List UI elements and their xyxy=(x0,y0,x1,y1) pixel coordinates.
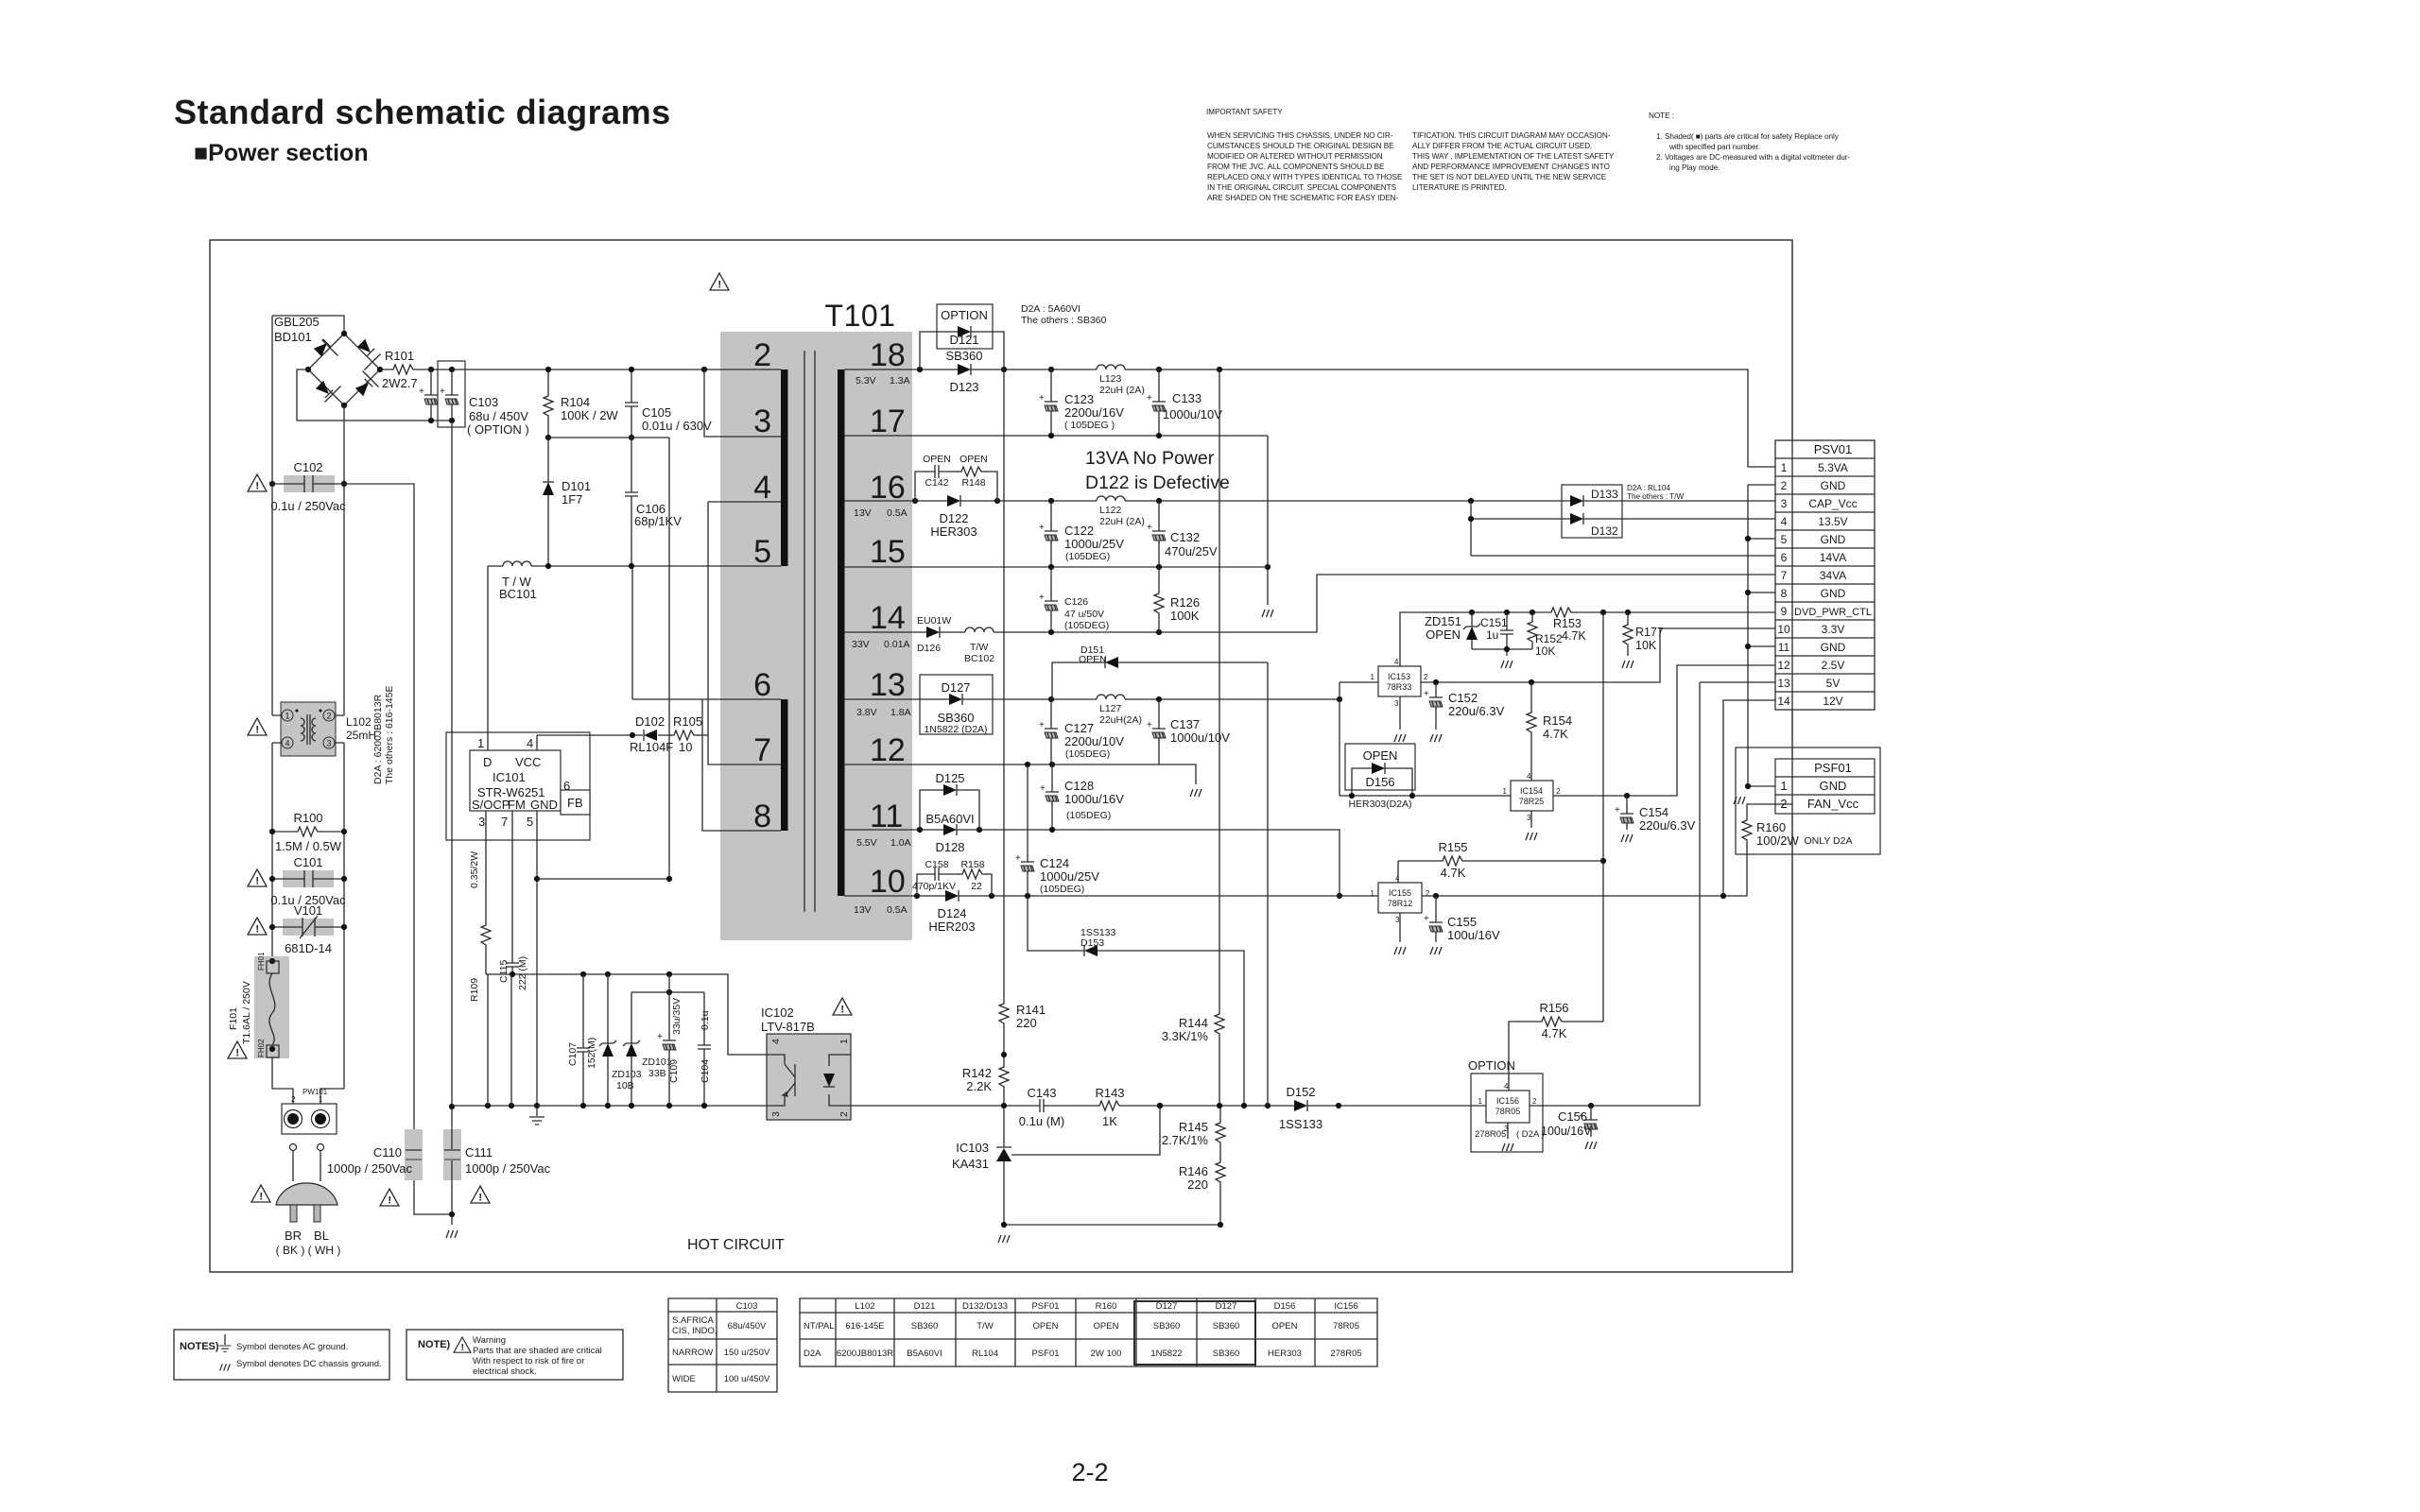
wire 2.5V output xyxy=(1553,665,1775,796)
svg-text:R105: R105 xyxy=(673,714,702,729)
svg-text:D2A : 5A60VI: D2A : 5A60VI xyxy=(1021,303,1080,315)
ground C111 xyxy=(446,1230,458,1238)
warning triangle C102 xyxy=(248,474,267,492)
resistor R153 xyxy=(1547,608,1577,617)
svg-text:3: 3 xyxy=(753,404,771,439)
svg-text:D122 is Defective: D122 is Defective xyxy=(1085,472,1230,493)
svg-text:D132: D132 xyxy=(1591,524,1618,538)
ground IC103 xyxy=(998,1235,1010,1243)
resistor R126 xyxy=(1158,567,1160,632)
svg-text:Warning: Warning xyxy=(473,1335,506,1346)
wire aux filter rail xyxy=(631,991,704,993)
capacitor C152 xyxy=(1435,682,1437,730)
svg-text:100u/16V: 100u/16V xyxy=(1447,928,1500,942)
svg-text:2: 2 xyxy=(1556,787,1561,796)
svg-text:1u: 1u xyxy=(1486,628,1498,642)
warning triangle IC102 xyxy=(833,998,852,1016)
svg-text:ZD151: ZD151 xyxy=(1425,614,1461,628)
svg-text:33B: 33B xyxy=(648,1068,666,1079)
svg-text:10: 10 xyxy=(1777,623,1790,636)
svg-text:C142: C142 xyxy=(925,477,948,489)
warning triangle plug xyxy=(251,1185,270,1203)
transformer L102 xyxy=(281,702,376,756)
svg-text:1: 1 xyxy=(1781,461,1788,474)
svg-text:681D-14: 681D-14 xyxy=(285,941,332,955)
svg-text:L127: L127 xyxy=(1099,703,1122,714)
svg-text:IC102: IC102 xyxy=(761,1005,794,1020)
svg-text:13VA No Power: 13VA No Power xyxy=(1085,448,1215,469)
svg-text:0.5A: 0.5A xyxy=(887,904,907,916)
warning triangle C101 xyxy=(248,869,267,887)
svg-text:R126: R126 xyxy=(1170,595,1200,610)
capacitor C158 branch xyxy=(912,859,992,896)
connector PSV01 xyxy=(1775,440,1875,710)
svg-text:220u/6.3V: 220u/6.3V xyxy=(1639,818,1696,833)
IC101 STR-W6251 xyxy=(446,732,590,840)
svg-text:4: 4 xyxy=(285,739,289,748)
svg-text:T1.6AL / 250V: T1.6AL / 250V xyxy=(241,981,252,1044)
svg-text:B5A60VI: B5A60VI xyxy=(907,1349,942,1359)
ground R177 xyxy=(1622,661,1633,668)
svg-text:GND: GND xyxy=(1821,587,1846,600)
svg-text:V101: V101 xyxy=(294,903,322,918)
svg-text:D156: D156 xyxy=(1365,775,1394,789)
capacitor C102 xyxy=(269,460,347,513)
zener ZD103 xyxy=(607,974,609,1106)
svg-text:PSF01: PSF01 xyxy=(1031,1349,1059,1359)
svg-text:R144: R144 xyxy=(1179,1016,1208,1030)
varistor V101 xyxy=(269,903,347,955)
svg-text:3: 3 xyxy=(770,1111,782,1117)
svg-text:PW101: PW101 xyxy=(302,1088,328,1096)
svg-text:R145: R145 xyxy=(1179,1120,1208,1134)
wire D151 drop xyxy=(1267,662,1269,1106)
svg-text:3: 3 xyxy=(1781,497,1788,510)
svg-text:1: 1 xyxy=(1371,889,1375,898)
diode D124 xyxy=(945,890,959,902)
svg-text:GND: GND xyxy=(1820,779,1847,793)
svg-text:0.1u / 250Vac: 0.1u / 250Vac xyxy=(270,499,346,513)
svg-text:NOTE): NOTE) xyxy=(418,1339,451,1350)
svg-text:470u/25V: 470u/25V xyxy=(1165,544,1218,558)
optocoupler IC102 xyxy=(761,1005,851,1120)
svg-text:C127: C127 xyxy=(1064,721,1094,735)
svg-text:13V: 13V xyxy=(854,904,872,916)
capacitor C101 xyxy=(269,855,347,907)
svg-text:RL104F: RL104F xyxy=(630,740,673,754)
svg-text:68p/1KV: 68p/1KV xyxy=(634,514,682,528)
svg-text:3: 3 xyxy=(1527,814,1531,822)
svg-text:1000u/25V: 1000u/25V xyxy=(1064,537,1124,551)
svg-text:1.5M / 0.5W: 1.5M / 0.5W xyxy=(275,839,342,853)
wire 5.5V rail pin11 xyxy=(844,830,1340,896)
schematic outline border xyxy=(210,240,1792,1272)
svg-text:C137: C137 xyxy=(1170,717,1200,731)
svg-text:6200JB8013R: 6200JB8013R xyxy=(837,1349,893,1359)
svg-text:IC156: IC156 xyxy=(1496,1096,1519,1106)
regulator IC156 option xyxy=(1468,1058,1545,1152)
resistor R154 xyxy=(1530,682,1532,781)
svg-text:1F7: 1F7 xyxy=(562,492,582,507)
svg-text:C110: C110 xyxy=(373,1145,402,1160)
svg-text:R153: R153 xyxy=(1553,617,1582,630)
wire 2.5V input rail xyxy=(1340,795,1511,797)
svg-text:OPTION: OPTION xyxy=(1468,1058,1515,1073)
svg-text:1000u/10V: 1000u/10V xyxy=(1163,407,1222,421)
svg-text:C104: C104 xyxy=(700,1059,711,1083)
svg-text:IC155: IC155 xyxy=(1389,888,1411,898)
svg-text:LITERATURE IS PRINTED.: LITERATURE IS PRINTED. xyxy=(1412,183,1507,192)
svg-text:C152: C152 xyxy=(1448,691,1478,705)
svg-text:C151: C151 xyxy=(1480,616,1508,629)
svg-text:8: 8 xyxy=(1781,587,1788,600)
wire feedback bottom rail xyxy=(851,682,1700,1106)
zener ZD101 xyxy=(631,992,632,1106)
svg-text:16: 16 xyxy=(870,470,906,506)
svg-text:4.7K: 4.7K xyxy=(1542,1026,1567,1040)
wire sense branch vertical xyxy=(1602,612,1604,1022)
svg-text:R160: R160 xyxy=(1096,1301,1117,1312)
svg-text:RL104: RL104 xyxy=(972,1349,998,1359)
svg-text:L123: L123 xyxy=(1099,373,1122,385)
left AC bus xyxy=(271,316,273,961)
diode D128 xyxy=(943,824,957,835)
svg-text:ALLY DIFFER FROM THE ACTUAL: ALLY DIFFER FROM THE ACTUAL CIRCUIT USED… xyxy=(1412,142,1592,150)
svg-text:5: 5 xyxy=(527,815,533,829)
wire AC line to C110 xyxy=(344,484,452,1214)
svg-text:GBL205: GBL205 xyxy=(274,315,320,329)
svg-text:220: 220 xyxy=(1187,1177,1208,1192)
svg-text:BD101: BD101 xyxy=(274,330,312,344)
svg-text:(105DEG): (105DEG) xyxy=(1065,551,1110,562)
capacitor C127 xyxy=(1050,699,1052,765)
svg-text:TIFICATION. THIS CIRCUIT DIAGR: TIFICATION. THIS CIRCUIT DIAGRAM MAY OCC… xyxy=(1412,131,1611,140)
svg-text:4: 4 xyxy=(1504,1082,1509,1091)
svg-text:OPEN: OPEN xyxy=(959,454,988,465)
svg-text:FROM THE JVC. ALL COMPONENT: FROM THE JVC. ALL COMPONENTS SHOULD BE xyxy=(1207,163,1385,171)
wire IC101 pin3 xyxy=(485,811,487,974)
svg-text:R152: R152 xyxy=(1535,632,1563,645)
diode D132 xyxy=(1471,501,1775,556)
svg-text:R155: R155 xyxy=(1438,840,1467,854)
svg-text:R100: R100 xyxy=(293,811,322,825)
svg-text:14: 14 xyxy=(870,600,906,636)
diode D122 xyxy=(947,495,960,507)
svg-text:220: 220 xyxy=(1016,1016,1037,1030)
svg-text:PSV01: PSV01 xyxy=(1814,442,1852,456)
svg-text:L122: L122 xyxy=(1099,505,1122,516)
svg-text:1K: 1K xyxy=(1102,1114,1117,1128)
wire snubber bottom xyxy=(548,438,669,879)
svg-text:R156: R156 xyxy=(1539,1001,1568,1015)
svg-text:CAP_Vcc: CAP_Vcc xyxy=(1808,497,1857,510)
svg-text:L102: L102 xyxy=(346,715,372,729)
svg-text:152(M): 152(M) xyxy=(586,1038,597,1069)
connector PSF01 xyxy=(1736,747,1880,854)
svg-text:0.01u / 630V: 0.01u / 630V xyxy=(642,419,712,433)
svg-text:IMPORTANT SAFETY: IMPORTANT SAFETY xyxy=(1206,108,1283,116)
capacitor C133 xyxy=(1158,369,1160,436)
svg-text:R158: R158 xyxy=(960,859,984,870)
svg-text:47 u/50V: 47 u/50V xyxy=(1064,609,1104,620)
svg-text:C105: C105 xyxy=(642,405,671,420)
capacitor C132 xyxy=(1158,501,1160,567)
svg-text:OPEN: OPEN xyxy=(1426,627,1461,642)
svg-text:The others : 616-145E: The others : 616-145E xyxy=(384,686,395,784)
diode D121 option branch xyxy=(920,304,1004,369)
svg-text:3: 3 xyxy=(478,815,485,829)
svg-text:ZD103: ZD103 xyxy=(612,1069,642,1080)
svg-text:The others : SB360: The others : SB360 xyxy=(1021,315,1107,326)
svg-text:5.3VA: 5.3VA xyxy=(1818,461,1848,474)
svg-text:AND PERFORMANCE IMPROVEMENT CH: AND PERFORMANCE IMPROVEMENT CHANGES INTO xyxy=(1412,163,1610,171)
svg-text:100K / 2W: 100K / 2W xyxy=(561,408,618,422)
wire 5.3V rail pin18 xyxy=(844,369,1775,467)
svg-text:22uH (2A): 22uH (2A) xyxy=(1099,516,1145,527)
svg-text:100u/16V: 100u/16V xyxy=(1541,1125,1592,1138)
svg-text:SB360: SB360 xyxy=(911,1321,939,1332)
svg-text:D124: D124 xyxy=(937,906,966,920)
svg-text:78R05: 78R05 xyxy=(1333,1321,1359,1332)
wire IC101 pin5 gnd xyxy=(536,811,538,1106)
svg-text:D127: D127 xyxy=(1156,1301,1178,1312)
svg-text:SB360: SB360 xyxy=(945,349,982,363)
node B+ junctions xyxy=(428,367,434,372)
svg-text:with specified part number.: with specified part number. xyxy=(1668,143,1760,151)
svg-text:D126: D126 xyxy=(917,643,941,654)
svg-text:GND: GND xyxy=(1821,479,1846,492)
resistor R160 xyxy=(1747,804,1792,816)
svg-text:5.3V: 5.3V xyxy=(856,375,876,387)
wire pin3 feed xyxy=(704,369,781,437)
transformer T101 xyxy=(781,299,895,912)
svg-text:278R05: 278R05 xyxy=(1330,1349,1361,1359)
svg-text:4: 4 xyxy=(753,470,771,506)
svg-text:C158: C158 xyxy=(925,859,948,870)
svg-text:1: 1 xyxy=(1371,673,1375,681)
svg-text:FH02: FH02 xyxy=(257,1039,266,1057)
svg-text:R104: R104 xyxy=(561,395,590,409)
svg-text:S.AFRICA: S.AFRICA xyxy=(672,1315,714,1326)
wire 13V rail pin16 xyxy=(844,500,1775,502)
svg-text:10: 10 xyxy=(679,740,692,754)
svg-text:HER303: HER303 xyxy=(930,524,977,539)
svg-text:13: 13 xyxy=(1777,677,1790,690)
svg-text:CUMSTANCES SHOULD THE ORIGI: CUMSTANCES SHOULD THE ORIGINAL DESIGN BE xyxy=(1207,142,1394,150)
wire primary gnd rail xyxy=(486,974,767,1055)
svg-text:R142: R142 xyxy=(962,1066,992,1080)
svg-text:MODIFIED OR ALTERED WITHOUT: MODIFIED OR ALTERED WITHOUT PERMISSION xyxy=(1207,152,1383,161)
svg-text:SB360: SB360 xyxy=(1213,1321,1240,1332)
zener ZD151 open xyxy=(1471,612,1473,649)
svg-text:(105DEG): (105DEG) xyxy=(1065,748,1110,760)
svg-text:PSF01: PSF01 xyxy=(1814,761,1852,775)
svg-text:3: 3 xyxy=(1395,916,1400,924)
wire C103 down bus xyxy=(451,421,453,1106)
svg-text:34VA: 34VA xyxy=(1820,569,1846,582)
wire IC153 input xyxy=(1340,682,1378,796)
capacitor C106 xyxy=(631,438,632,566)
svg-text:FH01: FH01 xyxy=(257,952,266,971)
svg-text:7: 7 xyxy=(501,815,508,829)
svg-text:L102: L102 xyxy=(855,1301,874,1312)
svg-text:78R12: 78R12 xyxy=(1388,899,1413,908)
svg-text:IC101: IC101 xyxy=(493,770,526,784)
svg-text:With respect to risk of fire o: With respect to risk of fire or xyxy=(473,1356,584,1366)
svg-text:SB360: SB360 xyxy=(1153,1321,1181,1332)
wire IC101 pin1 drain xyxy=(487,566,489,750)
svg-text:S/OCP: S/OCP xyxy=(472,798,510,812)
svg-text:5.5V: 5.5V xyxy=(856,837,877,849)
transformer T101 shaded area xyxy=(720,332,912,940)
svg-text:C111: C111 xyxy=(465,1145,493,1160)
svg-text:Symbol denotes DC chassis grou: Symbol denotes DC chassis ground. xyxy=(236,1359,382,1369)
svg-text:1.3A: 1.3A xyxy=(890,375,910,387)
svg-text:3: 3 xyxy=(1394,699,1399,708)
resistor R148 open xyxy=(957,467,987,476)
svg-text:NT/PAL: NT/PAL xyxy=(804,1321,835,1332)
svg-text:33u/35V: 33u/35V xyxy=(671,998,683,1035)
capacitor C105 xyxy=(631,369,632,438)
svg-text:( 105DEG ): ( 105DEG ) xyxy=(1064,420,1115,431)
svg-text:3: 3 xyxy=(326,739,331,748)
svg-text:1000u/25V: 1000u/25V xyxy=(1040,869,1099,884)
capacitor C143 xyxy=(1033,1099,1050,1112)
svg-text:OPEN: OPEN xyxy=(1363,748,1398,763)
inductor L127 xyxy=(1097,695,1125,699)
notes box symbols xyxy=(174,1330,389,1380)
svg-text:100/2W: 100/2W xyxy=(1756,833,1800,848)
svg-text:D153: D153 xyxy=(1080,937,1104,949)
svg-text:D127: D127 xyxy=(1216,1301,1237,1312)
warning triangle top xyxy=(710,273,729,291)
svg-text:electrical shock.: electrical shock. xyxy=(473,1366,537,1377)
capacitor C142 open branch xyxy=(915,454,997,501)
svg-text:FM: FM xyxy=(508,798,526,812)
svg-text:9: 9 xyxy=(1781,605,1788,618)
diode D156 open xyxy=(1345,744,1415,810)
warning triangle F101 xyxy=(228,1041,247,1059)
wire IC103 gnd rail xyxy=(1004,1224,1220,1226)
svg-text:C123: C123 xyxy=(1064,392,1094,406)
svg-text:1: 1 xyxy=(319,1095,323,1104)
capacitor C122 xyxy=(1050,501,1052,567)
resistor R101 xyxy=(389,365,419,374)
ground zener net xyxy=(1501,661,1512,668)
shunt regulator IC103 xyxy=(952,1103,1163,1225)
regulator IC154 xyxy=(1503,772,1561,822)
diode D125 branch xyxy=(920,771,979,830)
svg-text:IN THE ORIGINAL CIRCUIT. SP: IN THE ORIGINAL CIRCUIT. SPECIAL COMPONE… xyxy=(1207,183,1397,192)
svg-text:4: 4 xyxy=(1527,772,1531,781)
svg-text:2W 100: 2W 100 xyxy=(1091,1349,1122,1359)
connector PW101 xyxy=(272,1057,344,1134)
resistor R177 xyxy=(1627,612,1629,656)
capacitor C123 xyxy=(1050,369,1052,436)
warning triangle C111 xyxy=(471,1186,490,1204)
svg-text:FB: FB xyxy=(567,796,583,810)
svg-text:4.7K: 4.7K xyxy=(1562,629,1586,643)
capacitor C137 xyxy=(1158,699,1160,765)
svg-text:FAN_Vcc: FAN_Vcc xyxy=(1807,797,1859,811)
svg-text:T/W: T/W xyxy=(977,1321,993,1332)
svg-text:3.8V: 3.8V xyxy=(856,707,877,718)
svg-text:278R05: 278R05 xyxy=(1475,1129,1506,1140)
wire bridge negative to C103 bottom xyxy=(297,369,452,421)
svg-text:GND: GND xyxy=(1821,533,1846,546)
resistor R105 xyxy=(669,730,700,740)
svg-text:1000p / 250Vac: 1000p / 250Vac xyxy=(327,1161,413,1176)
svg-text:OPEN: OPEN xyxy=(1094,1321,1119,1332)
svg-text:2: 2 xyxy=(326,712,331,721)
svg-text:D102: D102 xyxy=(635,714,665,729)
ground C155 xyxy=(1430,947,1442,954)
svg-text:REPLACED ONLY WITH TYPES IDE: REPLACED ONLY WITH TYPES IDENTICAL TO TH… xyxy=(1207,173,1403,181)
capacitor C154 xyxy=(1626,796,1628,830)
wire 3.3V output rail xyxy=(1421,628,1775,682)
svg-text:PSF01: PSF01 xyxy=(1031,1301,1059,1312)
svg-text:8: 8 xyxy=(753,799,771,834)
svg-text:■Power section: ■Power section xyxy=(194,140,369,166)
svg-text:THIS WAY , IMPLEMENTATION OF T: THIS WAY , IMPLEMENTATION OF THE LATEST … xyxy=(1412,152,1615,161)
regulator IC153 xyxy=(1371,658,1428,708)
svg-text:12: 12 xyxy=(1777,659,1790,672)
svg-text:4.7K: 4.7K xyxy=(1441,866,1466,880)
svg-text:D2A: D2A xyxy=(804,1349,821,1359)
ground pin12 xyxy=(1190,789,1201,797)
resistor R144 xyxy=(1215,1009,1224,1039)
svg-text:2. Voltages are DC-measured: 2. Voltages are DC-measured with a digit… xyxy=(1656,153,1850,162)
ground C152 xyxy=(1430,734,1442,742)
svg-text:D123: D123 xyxy=(949,380,978,394)
fuse F101 xyxy=(228,952,289,1058)
svg-text:0.1u: 0.1u xyxy=(700,1010,711,1030)
svg-text:6: 6 xyxy=(563,779,570,793)
capacitor C110 xyxy=(327,1129,423,1180)
svg-text:( WH ): ( WH ) xyxy=(308,1244,341,1257)
resistor R146 xyxy=(1216,1158,1225,1188)
svg-text:LTV-817B: LTV-817B xyxy=(761,1020,815,1034)
svg-text:12: 12 xyxy=(870,732,906,768)
note warning box xyxy=(406,1330,623,1380)
svg-text:C102: C102 xyxy=(293,460,322,474)
svg-text:HER203: HER203 xyxy=(928,919,975,934)
svg-text:22uH (2A): 22uH (2A) xyxy=(1099,385,1145,396)
svg-text:C124: C124 xyxy=(1040,856,1069,870)
svg-text:C133: C133 xyxy=(1172,391,1201,405)
svg-text:1: 1 xyxy=(838,1039,850,1044)
svg-text:1000p / 250Vac: 1000p / 250Vac xyxy=(465,1161,551,1176)
svg-text:(105DEG): (105DEG) xyxy=(1066,810,1111,821)
svg-text:0.1u (M): 0.1u (M) xyxy=(1019,1114,1064,1128)
diode D133 xyxy=(1562,485,1622,538)
resistor R104 xyxy=(547,369,549,438)
svg-text:IC153: IC153 xyxy=(1388,672,1410,681)
svg-text:5: 5 xyxy=(753,534,771,570)
table parts variants xyxy=(800,1298,1377,1366)
resistor R158 xyxy=(958,869,988,879)
svg-text:0.35/2W: 0.35/2W xyxy=(469,851,480,888)
capacitor C151 xyxy=(1506,612,1508,656)
wire 13V rail pin10 xyxy=(844,895,1378,897)
wire 12V output rail xyxy=(1422,846,1747,896)
svg-text:6: 6 xyxy=(753,667,771,703)
svg-text:IC156: IC156 xyxy=(1334,1301,1357,1312)
warning triangle C110 xyxy=(380,1189,399,1207)
svg-text:C101: C101 xyxy=(293,855,322,869)
regulator IC155 xyxy=(1371,874,1430,924)
svg-text:C128: C128 xyxy=(1064,779,1094,793)
